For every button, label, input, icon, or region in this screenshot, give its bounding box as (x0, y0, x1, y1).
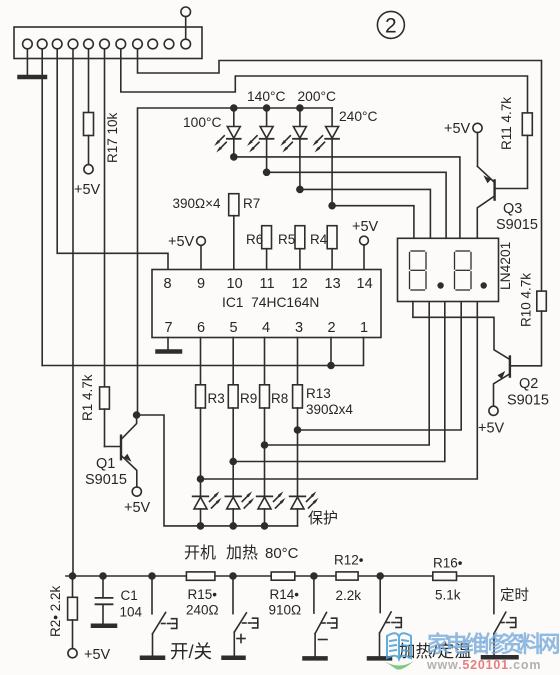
LED D4 240C (313, 108, 340, 206)
node rail-SW2 (230, 573, 236, 579)
resistor R6 (262, 226, 272, 270)
resistor R1 4.7k (100, 387, 110, 447)
resistor R9 (228, 385, 238, 497)
resistor R10 4.7k (537, 291, 547, 311)
svg-text:4: 4 (262, 320, 270, 336)
label R13 390ohm x4 (306, 386, 353, 417)
transistor Q3 S9015 (477, 135, 527, 238)
svg-text:开/关: 开/关 (170, 641, 212, 662)
svg-text:R13: R13 (306, 386, 331, 401)
svg-text:R8: R8 (271, 391, 288, 406)
svg-text:定时: 定时 (500, 587, 529, 604)
svg-text:2: 2 (328, 320, 336, 336)
svg-text:加热: 加热 (226, 544, 258, 562)
wire LED8 node to display pin (298, 302, 462, 431)
wire D3 node to display pin (300, 189, 431, 238)
label R14 910 (269, 587, 302, 618)
transistor Q2 S9015 (413, 302, 510, 407)
svg-text:开机: 开机 (184, 544, 216, 562)
node rail-R2 (70, 573, 76, 579)
wire R10 to Q2 base (510, 311, 542, 366)
svg-text:R7: R7 (243, 196, 260, 211)
wire IC pin5 to R9 (232, 338, 234, 385)
node rail-SW1 (149, 573, 155, 579)
svg-text:3: 3 (295, 320, 303, 336)
svg-text:7: 7 (165, 320, 173, 336)
svg-text:8: 8 (164, 276, 172, 292)
display digit 2 decimal point (481, 282, 487, 288)
svg-text:R2• 2.2k: R2• 2.2k (48, 585, 63, 637)
svg-text:+5V: +5V (478, 421, 505, 437)
node rail-LED3 (297, 105, 303, 111)
connector top terminal (181, 7, 191, 39)
wire pin7 staircase to R11 (right top) (121, 49, 528, 113)
resistor R3 (196, 385, 206, 497)
svg-text:R1 4.7k: R1 4.7k (80, 374, 95, 421)
node D2 to display (264, 169, 270, 175)
resistor R5 (295, 226, 305, 270)
resistor R14 910 body (271, 572, 295, 580)
display digit 2 segments (455, 251, 472, 290)
svg-text:240°C: 240°C (339, 109, 378, 124)
node rail-LED2 (264, 105, 270, 111)
node pin2 data (328, 363, 334, 369)
node D1 to display (231, 154, 237, 160)
display digit 1 segments (410, 251, 427, 290)
wire LED5 node to display pin (201, 302, 478, 480)
wire D1 node to display pin (234, 157, 460, 238)
node rail-C1 (100, 573, 106, 579)
svg-text:S9015: S9015 (85, 472, 127, 488)
node LED7 anode line (262, 442, 268, 448)
+5V terminal at Q1 emitter (132, 487, 141, 496)
svg-text:S9015: S9015 (507, 393, 549, 409)
watermark book icon (384, 633, 414, 669)
svg-text:R5: R5 (278, 232, 295, 247)
svg-text:104: 104 (120, 605, 143, 620)
svg-text:910Ω: 910Ω (269, 603, 302, 618)
svg-text:6: 6 (197, 320, 205, 336)
node sheet marker 2 (377, 11, 404, 38)
+5V terminal below R17 (84, 165, 93, 174)
svg-text:11: 11 (260, 276, 275, 292)
wire pin6 down to R1 (104, 49, 106, 387)
ground at SW1 (142, 656, 163, 661)
node rail-LED1 (231, 105, 237, 111)
svg-text:C1: C1 (121, 588, 138, 603)
resistor R2 2.2k (68, 576, 78, 649)
ground at SW2 (224, 656, 244, 661)
display digit 1 decimal point (437, 282, 443, 288)
svg-text:LN4201: LN4201 (498, 242, 513, 290)
+5V terminal below R2 (68, 649, 77, 658)
wire IC pin3 to R13 (297, 338, 299, 385)
resistor R4 (327, 226, 337, 270)
node rail-D7 (262, 523, 268, 529)
svg-text:9: 9 (197, 276, 205, 292)
svg-text:5: 5 (230, 320, 238, 336)
node rail-D6 (230, 523, 236, 529)
node rail-D5 (198, 523, 204, 529)
svg-text:Q3: Q3 (503, 201, 522, 217)
ground at SW5 (483, 655, 517, 660)
switch SW5 timer (494, 612, 516, 655)
switch SW3 minus (314, 576, 337, 656)
resistor R17 10k (84, 113, 94, 165)
wire pin4 down to bottom key rail (72, 49, 74, 576)
node rail-SW4 (377, 573, 383, 579)
resistor R16 5.1k body (433, 572, 457, 580)
svg-text:R6: R6 (246, 232, 263, 247)
svg-text:390Ωx4: 390Ωx4 (306, 402, 353, 417)
svg-text:5.1k: 5.1k (435, 588, 461, 603)
LED anode top rail from Q1 collector (138, 108, 333, 415)
wire pin3 down then right to IC pin8 (57, 49, 168, 270)
svg-text:Q1: Q1 (96, 456, 115, 472)
node Q1 collector (134, 412, 140, 418)
svg-text:R14•: R14• (270, 587, 300, 602)
svg-text:R9: R9 (240, 391, 257, 406)
resistor R13 (293, 385, 303, 497)
wire IC pin7 to ground (167, 338, 169, 350)
+5V terminal at IC pin9 (197, 237, 206, 270)
node LED5 anode line (198, 476, 204, 482)
+5V terminal at IC pin14 (360, 236, 369, 269)
svg-text:2: 2 (385, 15, 397, 38)
ground at IC pin7 (158, 349, 181, 354)
connector pin circles (23, 39, 191, 49)
+5V terminal at Q2 emitter (489, 406, 498, 415)
switch SW4 heat/settemp (380, 576, 402, 656)
wire pin2 down to shift-register data line (41, 49, 43, 366)
svg-text:+5V: +5V (444, 121, 471, 137)
svg-text:2.2k: 2.2k (336, 588, 362, 603)
svg-text:IC1 74HC164N: IC1 74HC164N (222, 295, 319, 310)
svg-text:R15•: R15• (188, 587, 218, 602)
svg-text:+5V: +5V (124, 500, 151, 516)
switch SW2 plus (233, 576, 258, 656)
svg-text:S9015: S9015 (496, 217, 538, 233)
LED D5 kaiji (193, 491, 222, 526)
ground at SW4 (369, 656, 390, 661)
svg-text:140°C: 140°C (247, 89, 286, 104)
resistor R12 2.2k body (336, 572, 358, 580)
LED D1 100C (214, 108, 241, 157)
wire IC pin4 to R8 (264, 338, 266, 385)
LED cathode rail to Q1 collector (137, 415, 298, 526)
ground at connector pin1 (20, 75, 46, 80)
wire pin1 to ground (26, 49, 28, 75)
svg-text:390Ω×4: 390Ω×4 (173, 196, 222, 211)
wire pin5 to R17 (88, 49, 90, 113)
svg-text:R10 4.7k: R10 4.7k (519, 273, 534, 327)
LED D3 200C (280, 108, 307, 189)
wire IC pin2 to data line (330, 338, 332, 366)
connector J1 body (14, 27, 202, 59)
ground below C1 (93, 624, 115, 629)
node rail-SW3 (311, 573, 317, 579)
LED D7 80C (257, 491, 286, 526)
svg-text:+5V: +5V (84, 647, 111, 663)
ground at SW3 (305, 656, 326, 661)
svg-text:R11 4.7k: R11 4.7k (499, 97, 514, 150)
node LED8 anode line (295, 427, 301, 433)
node D4 to display (329, 203, 335, 209)
svg-text:10: 10 (227, 276, 243, 292)
node D3 to display (297, 186, 303, 192)
wire IC pin1 data line to connector pin2 (42, 338, 363, 366)
transistor Q1 S9015 (105, 415, 137, 487)
+5V terminal at Q3 emitter (473, 123, 482, 166)
op IC1 74HC164N box (152, 270, 381, 338)
svg-text:12: 12 (292, 276, 308, 292)
svg-text:R12•: R12• (334, 553, 364, 568)
svg-text:80°C: 80°C (265, 545, 299, 562)
svg-text:13: 13 (325, 276, 341, 292)
wire D2 node to display pin (267, 172, 447, 238)
wire IC pin6 to R3 (200, 338, 202, 385)
LED D8 baohu (290, 491, 319, 526)
LED D6 jiare (225, 491, 254, 526)
svg-text:+5V: +5V (352, 219, 379, 235)
display LN4201 box (398, 238, 499, 301)
svg-text:R4: R4 (310, 232, 328, 247)
node LED6 anode line (230, 459, 236, 465)
svg-text:14: 14 (357, 276, 373, 292)
svg-text:+5V: +5V (168, 234, 195, 250)
svg-text:R3: R3 (208, 391, 225, 406)
svg-text:R17 10k: R17 10k (105, 112, 120, 163)
wire pin8 staircase to R10 (right side) (138, 49, 542, 291)
resistor R8 (260, 385, 270, 497)
label R15 240 (186, 587, 219, 618)
svg-text:240Ω: 240Ω (186, 603, 219, 618)
resistor R15 240 body (186, 572, 215, 580)
svg-text:www.520101.com: www.520101.com (426, 658, 541, 672)
svg-text:家电维修资料网: 家电维修资料网 (427, 631, 559, 657)
bottom key rail (66, 576, 494, 614)
wire D4 node to display pin (332, 206, 414, 239)
capacitor C1 104 (96, 576, 113, 624)
svg-text:R16•: R16• (433, 556, 463, 571)
svg-text:Q2: Q2 (519, 376, 538, 392)
svg-text:+5V: +5V (74, 182, 101, 198)
resistor R7 (229, 194, 239, 270)
svg-text:1: 1 (360, 320, 368, 336)
svg-text:保护: 保护 (308, 510, 338, 527)
switch SW1 on/off (152, 576, 177, 656)
resistor R11 4.7k (522, 113, 532, 135)
svg-text:100°C: 100°C (183, 115, 222, 130)
svg-text:200°C: 200°C (298, 89, 337, 104)
wire LED6 node to display pin (233, 302, 445, 462)
wire LED7 node to display pin (265, 302, 430, 446)
LED D2 140C (247, 108, 274, 172)
